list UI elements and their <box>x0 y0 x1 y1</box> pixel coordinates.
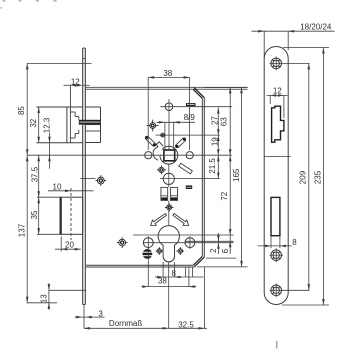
svg-text:12: 12 <box>71 77 80 86</box>
svg-text:38: 38 <box>158 276 167 285</box>
svg-text:35: 35 <box>30 210 39 219</box>
svg-text:3: 3 <box>98 309 103 318</box>
svg-text:63: 63 <box>220 117 229 126</box>
svg-text:20: 20 <box>65 240 74 249</box>
svg-text:32.5: 32.5 <box>178 320 194 329</box>
svg-text:10: 10 <box>53 183 62 192</box>
svg-text:37.5: 37.5 <box>30 166 39 182</box>
svg-text:38: 38 <box>163 69 172 78</box>
svg-text:12.3: 12.3 <box>42 117 51 133</box>
svg-text:8: 8 <box>171 269 176 278</box>
svg-text:137: 137 <box>18 223 27 237</box>
svg-text:72: 72 <box>220 191 229 200</box>
svg-text:165: 165 <box>232 168 241 182</box>
svg-text:19: 19 <box>210 137 219 146</box>
svg-text:8/9: 8/9 <box>184 113 196 122</box>
svg-text:85: 85 <box>17 106 26 115</box>
svg-text:Dornmaß: Dornmaß <box>109 319 142 328</box>
svg-text:12: 12 <box>273 87 282 96</box>
svg-text:13: 13 <box>40 294 49 303</box>
svg-text:32: 32 <box>29 118 38 127</box>
svg-text:18/20/24: 18/20/24 <box>300 23 332 32</box>
svg-text:8: 8 <box>292 238 297 247</box>
svg-text:6: 6 <box>221 248 230 253</box>
svg-text:2: 2 <box>209 248 218 253</box>
svg-text:27: 27 <box>210 116 219 125</box>
svg-text:235: 235 <box>313 170 322 184</box>
svg-text:209: 209 <box>299 170 308 184</box>
svg-text:21.5: 21.5 <box>208 158 217 174</box>
